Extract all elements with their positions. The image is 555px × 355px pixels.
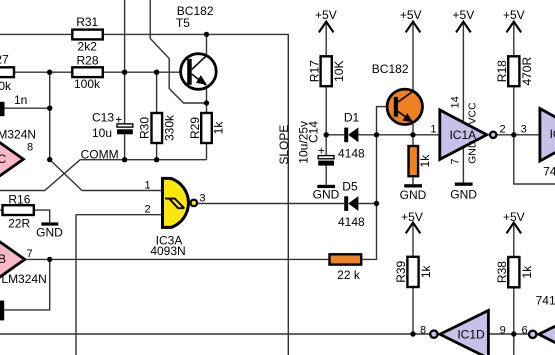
svg-text:1: 1	[430, 124, 436, 136]
svg-text:R16: R16	[8, 193, 30, 207]
svg-text:R38: R38	[495, 261, 509, 283]
svg-text:2k2: 2k2	[78, 40, 98, 54]
svg-text:R18: R18	[495, 60, 509, 82]
svg-text:R30: R30	[138, 117, 152, 139]
svg-text:22 k: 22 k	[337, 268, 361, 282]
svg-text:GND: GND	[313, 187, 340, 201]
svg-text:SLOPE: SLOPE	[277, 125, 291, 165]
svg-text:+5V: +5V	[503, 8, 525, 22]
svg-text:R27: R27	[0, 53, 9, 67]
svg-text:+5V: +5V	[401, 210, 423, 224]
svg-text:IC1D: IC1D	[457, 328, 485, 342]
svg-text:+: +	[115, 113, 122, 127]
svg-text:22R: 22R	[8, 217, 30, 231]
svg-text:R31: R31	[76, 15, 98, 29]
svg-text:GND: GND	[450, 188, 477, 202]
svg-text:2: 2	[144, 204, 150, 216]
svg-text:1k: 1k	[520, 265, 534, 279]
svg-text:14: 14	[449, 96, 461, 108]
svg-text:LM324N: LM324N	[1, 272, 46, 286]
svg-text:C13: C13	[92, 111, 114, 125]
svg-text:8: 8	[27, 142, 33, 154]
svg-text:100k: 100k	[0, 79, 12, 93]
svg-text:10u: 10u	[92, 126, 112, 140]
svg-text:1n: 1n	[14, 93, 27, 107]
svg-text:R29: R29	[188, 117, 202, 139]
svg-text:+5V: +5V	[315, 8, 337, 22]
svg-text:4148: 4148	[338, 147, 365, 161]
svg-text:3: 3	[521, 124, 527, 136]
svg-text:+5V: +5V	[453, 8, 475, 22]
svg-text:7414: 7414	[536, 293, 555, 307]
svg-text:GND: GND	[400, 188, 427, 202]
svg-text:C14: C14	[307, 121, 321, 143]
svg-text:470R: 470R	[520, 57, 534, 86]
svg-text:R39: R39	[394, 260, 408, 282]
svg-text:D5: D5	[342, 180, 358, 194]
svg-text:+5V: +5V	[503, 210, 525, 224]
svg-text:10K: 10K	[332, 61, 346, 82]
svg-text:COMM: COMM	[81, 147, 119, 161]
svg-text:+5V: +5V	[400, 8, 422, 22]
svg-text:9: 9	[500, 324, 506, 336]
svg-text:2: 2	[500, 124, 506, 136]
svg-text:4093N: 4093N	[150, 244, 185, 258]
svg-text:+: +	[318, 143, 325, 157]
svg-text:3: 3	[200, 193, 206, 205]
svg-text:GND: GND	[36, 226, 63, 240]
svg-text:1k: 1k	[212, 121, 226, 135]
svg-text:8: 8	[420, 324, 426, 336]
svg-text:7414: 7414	[543, 164, 555, 178]
svg-text:330k: 330k	[163, 114, 177, 141]
svg-text:100k: 100k	[74, 77, 101, 91]
svg-text:7: 7	[449, 158, 461, 164]
svg-text:IC1B: IC1B	[550, 127, 555, 141]
svg-text:T5: T5	[176, 16, 190, 30]
svg-text:D1: D1	[344, 110, 360, 124]
svg-text:C: C	[0, 152, 7, 166]
svg-text:6: 6	[522, 324, 528, 336]
svg-text:R28: R28	[76, 54, 98, 68]
svg-text:1k: 1k	[419, 264, 433, 278]
svg-text:IC1A: IC1A	[449, 128, 476, 142]
svg-text:B: B	[0, 252, 6, 266]
svg-text:R17: R17	[307, 60, 321, 82]
svg-text:BC182: BC182	[372, 62, 409, 76]
svg-text:LM324N: LM324N	[0, 127, 36, 141]
svg-text:1k: 1k	[418, 154, 432, 168]
svg-text:4148: 4148	[338, 215, 365, 229]
svg-text:VCC: VCC	[467, 102, 479, 125]
svg-text:7: 7	[26, 248, 32, 260]
svg-text:GND: GND	[467, 140, 479, 164]
svg-text:1: 1	[145, 179, 151, 191]
